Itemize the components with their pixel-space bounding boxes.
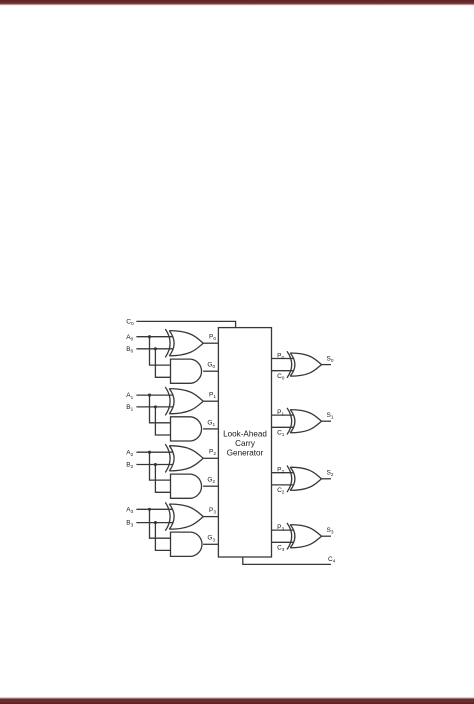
svg-text:S2: S2 <box>327 470 334 478</box>
svg-text:Generator: Generator <box>227 449 264 458</box>
svg-text:Look-Ahead: Look-Ahead <box>223 430 267 439</box>
svg-text:C3: C3 <box>277 545 285 553</box>
svg-text:P2: P2 <box>209 449 216 457</box>
svg-text:G3: G3 <box>207 535 215 543</box>
svg-text:C2: C2 <box>277 487 285 495</box>
svg-text:B3: B3 <box>126 520 133 528</box>
svg-text:P1: P1 <box>277 409 284 417</box>
svg-text:C0: C0 <box>126 318 134 326</box>
svg-text:S0: S0 <box>327 355 334 363</box>
svg-text:Carry: Carry <box>235 439 256 448</box>
svg-text:P3: P3 <box>277 524 284 532</box>
svg-text:C4: C4 <box>328 556 336 564</box>
svg-text:P0: P0 <box>277 352 284 360</box>
svg-text:C1: C1 <box>277 430 285 438</box>
svg-text:C0: C0 <box>277 373 285 381</box>
svg-text:S3: S3 <box>327 527 334 535</box>
svg-text:A3: A3 <box>126 506 133 514</box>
svg-text:B1: B1 <box>126 404 133 412</box>
svg-text:P1: P1 <box>209 392 216 400</box>
svg-text:G2: G2 <box>207 477 215 485</box>
svg-text:P3: P3 <box>209 507 216 515</box>
svg-text:B2: B2 <box>126 462 133 470</box>
svg-text:A1: A1 <box>126 392 133 400</box>
svg-text:P0: P0 <box>209 334 216 342</box>
svg-text:S1: S1 <box>327 412 334 420</box>
svg-text:A2: A2 <box>126 449 133 457</box>
svg-text:B0: B0 <box>126 346 133 354</box>
svg-text:A0: A0 <box>126 334 133 342</box>
svg-text:G1: G1 <box>207 419 215 427</box>
svg-text:P2: P2 <box>277 467 284 475</box>
svg-text:G0: G0 <box>207 362 215 370</box>
